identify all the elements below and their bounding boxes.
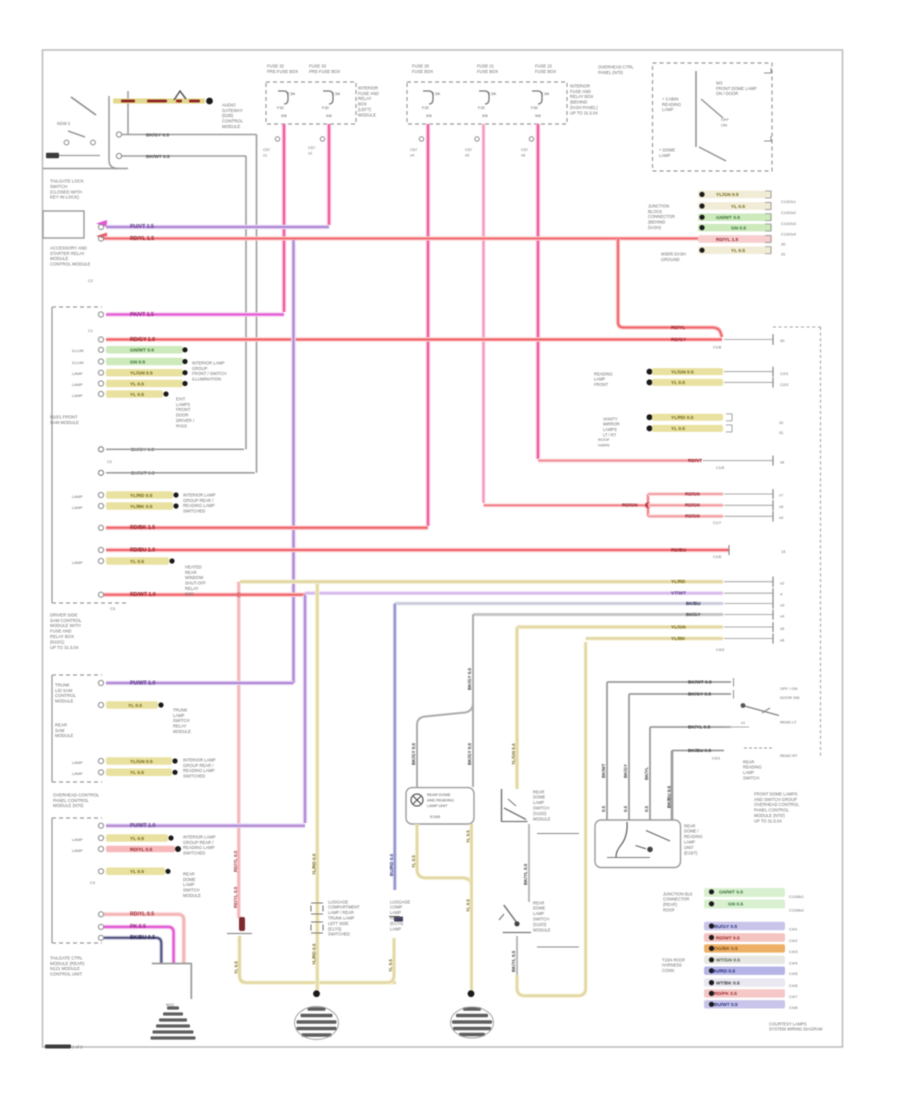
svg-text:FUSE 22: FUSE 22: [535, 63, 553, 68]
svg-text:RD/GN: RD/GN: [685, 491, 700, 496]
wire RD branch x618: [618, 239, 722, 338]
svg-text:HARNESS: HARNESS: [662, 963, 682, 968]
svg-text:CONN: CONN: [662, 968, 674, 973]
fuse block F1 label a: [267, 63, 298, 73]
svg-text:(REAR): (REAR): [663, 902, 678, 907]
wire RD y594: [104, 592, 305, 598]
svg-text:x8: x8: [779, 504, 783, 509]
SAM row YL y383: [72, 380, 188, 388]
svg-text:FUSE BOX: FUSE BOX: [412, 69, 433, 74]
SAM text right y565: [185, 564, 206, 596]
svg-text:LAMP: LAMP: [72, 494, 83, 499]
svg-text:+ DOME: + DOME: [659, 147, 675, 152]
svg-text:C4/4: C4/4: [789, 960, 798, 965]
svg-text:GN 0.5: GN 0.5: [130, 359, 146, 365]
mid rows group1 a: [647, 367, 774, 377]
comp3 yellow y838: [72, 834, 174, 842]
svg-text:DOME: DOME: [533, 906, 546, 911]
svg-text:READ LT: READ LT: [780, 720, 797, 725]
svg-text:PK 0.5: PK 0.5: [130, 924, 146, 930]
fuse block F2 label b: [477, 63, 498, 73]
svg-text:FUSE 33: FUSE 33: [309, 63, 327, 68]
svg-text:FUSE 32: FUSE 32: [267, 63, 285, 68]
pin row 2 (RD/WT 0.5): [704, 933, 798, 943]
svg-text:RD/YL 1.5: RD/YL 1.5: [130, 236, 154, 242]
lamp L1 glyphs: [411, 792, 454, 819]
svg-text:C3: C3: [90, 880, 95, 885]
svg-text:C2/2: C2/2: [780, 382, 789, 387]
right conn pin text 3: [781, 221, 797, 226]
front SAM left edge: [52, 307, 127, 603]
svg-text:RD/YL 0.5: RD/YL 0.5: [130, 847, 153, 853]
OCP small text: [721, 117, 730, 127]
wire PU/VT y227: [106, 224, 329, 230]
wire MG y314: [106, 312, 284, 318]
fuse panel text right: [570, 83, 598, 115]
svg-text:SWITCH: SWITCH: [173, 718, 190, 723]
svg-text:YL 0.5: YL 0.5: [466, 830, 471, 843]
svg-text:PK/VT 1.5: PK/VT 1.5: [130, 312, 154, 318]
svg-text:REAR: REAR: [55, 722, 67, 727]
wire fuse F2c pink drop: [521, 124, 538, 459]
wire dark below SW-A: [523, 824, 529, 902]
svg-text:RELAY: RELAY: [358, 96, 372, 101]
front SAM pin texts: [88, 278, 115, 611]
svg-text:FUSE 20: FUSE 20: [412, 63, 430, 68]
svg-text:LEFT SIDE: LEFT SIDE: [328, 921, 349, 926]
wire YL staircase y638: [586, 634, 785, 653]
svg-text:BK/BU 0.5: BK/BU 0.5: [666, 785, 671, 808]
SAM row YL y394: [72, 390, 169, 398]
svg-text:(BEHIND: (BEHIND: [570, 100, 587, 105]
wire GY y694: [629, 690, 734, 699]
svg-text:PU/WT 1.0: PU/WT 1.0: [130, 823, 155, 829]
svg-text:SWITCHED: SWITCHED: [183, 851, 205, 856]
svg-text:C2: C2: [107, 459, 112, 464]
OCP left text: [662, 96, 681, 112]
svg-text:F32: F32: [531, 105, 539, 110]
OCP inner divider: [695, 71, 697, 147]
wire YL x517 vertical: [511, 627, 517, 789]
svg-text:BK/GY: BK/GY: [686, 612, 701, 617]
svg-text:RD/YL 0.5: RD/YL 0.5: [130, 912, 154, 918]
pin row 5 (BU/RD 0.5): [704, 967, 798, 977]
svg-text:ROOF: ROOF: [598, 437, 610, 442]
wire dark below SW-B: [511, 936, 517, 977]
fuse block F1 dashed box: [266, 82, 356, 124]
svg-text:RD/GN: RD/GN: [685, 514, 700, 519]
comp3 rings: [98, 823, 103, 940]
svg-text:LAMP: LAMP: [72, 760, 83, 765]
wire YL y982 bus: [244, 981, 396, 985]
svg-text:MODULE: MODULE: [533, 816, 551, 821]
svg-text:OVERHEAD CONTROL: OVERHEAD CONTROL: [754, 802, 800, 807]
svg-text:YL/RD 0.5: YL/RD 0.5: [130, 493, 153, 499]
SAM yellow y506: [72, 502, 179, 510]
svg-text:VANITY: VANITY: [603, 416, 618, 421]
green block: [704, 888, 785, 909]
junction split vertical: [645, 494, 651, 516]
svg-text:CONTROL MODULE: CONTROL MODULE: [50, 262, 91, 267]
svg-text:F32: F32: [277, 105, 285, 110]
lamp L1 box: [406, 788, 474, 824]
svg-text:FUSE 21: FUSE 21: [477, 63, 495, 68]
svg-text:INTERIOR: INTERIOR: [570, 83, 590, 88]
svg-text:C57: C57: [263, 147, 270, 152]
svg-text:x4: x4: [410, 153, 415, 158]
SW-A text right: [533, 789, 579, 833]
svg-text:x6: x6: [780, 460, 785, 465]
svg-text:(BEHIND: (BEHIND: [648, 220, 665, 225]
svg-text:PANEL CONTROL: PANEL CONTROL: [754, 808, 790, 813]
svg-text:GN 0.5: GN 0.5: [728, 902, 744, 908]
wire RD y339 long: [106, 337, 722, 343]
svg-text:NSW 2: NSW 2: [57, 121, 71, 126]
lamp L2 right text: [390, 899, 411, 931]
svg-text:REAR: REAR: [743, 759, 754, 764]
svg-text:BK/YL 0.5: BK/YL 0.5: [688, 724, 711, 730]
wire split a y494: [648, 489, 783, 499]
svg-text:(CLOSED WITH: (CLOSED WITH: [50, 189, 82, 194]
svg-text:C57: C57: [410, 147, 417, 152]
svg-text:OVERHEAD CTRL: OVERHEAD CTRL: [598, 64, 634, 69]
svg-text:FRONT: FRONT: [594, 382, 609, 387]
mid group2 left text: [603, 416, 620, 437]
svg-text:YL 0.5: YL 0.5: [130, 392, 144, 398]
SAM row GN y361: [72, 358, 188, 366]
svg-text:SWITCH: SWITCH: [743, 775, 759, 780]
svg-text:YL 0.5: YL 0.5: [411, 855, 416, 868]
svg-text:UP TO 31.5.04: UP TO 31.5.04: [754, 818, 782, 823]
svg-text:REAR: REAR: [684, 823, 695, 828]
corner gray text: [598, 437, 610, 447]
svg-text:7,5A: 7,5A: [432, 91, 441, 96]
svg-text:YL 0.5: YL 0.5: [388, 959, 393, 972]
svg-text:9/8: 9/8: [535, 113, 541, 118]
right conn row4 GN: [698, 224, 772, 232]
switch body line A: [109, 96, 118, 169]
pin row 4 (WT/GN 0.5): [704, 956, 798, 966]
svg-text:BK/YL: BK/YL: [644, 767, 649, 780]
svg-text:BK/YL 0.5: BK/YL 0.5: [511, 950, 516, 972]
svg-text:x3: x3: [780, 602, 785, 607]
svg-text:READING: READING: [743, 765, 762, 770]
svg-text:LAMP: LAMP: [173, 713, 185, 718]
svg-text:7,5A: 7,5A: [488, 91, 497, 96]
svg-text:GROUP REAR /: GROUP REAR /: [183, 763, 214, 768]
svg-text:MODULE: MODULE: [183, 893, 201, 898]
comp3 box edges: [52, 818, 102, 943]
svg-text:HARN: HARN: [598, 443, 609, 448]
switch S1 lever 2: [68, 131, 85, 137]
rear SAM inner text: [55, 682, 77, 703]
svg-text:PU/VT 1.5: PU/VT 1.5: [130, 224, 154, 230]
wire GY y727: [650, 720, 749, 730]
svg-text:RD/YL 1.5: RD/YL 1.5: [716, 237, 739, 243]
splice dot on striped wire: [206, 98, 213, 105]
svg-text:31: 31: [781, 252, 786, 257]
svg-text:RD/GN: RD/GN: [622, 503, 638, 509]
wire GY branch to x417: [411, 703, 473, 787]
switch SW-B: [499, 905, 531, 933]
svg-text:LAMP: LAMP: [183, 882, 195, 887]
OCP bottom diagonal: [699, 147, 726, 161]
svg-text:ILLUM: ILLUM: [72, 360, 83, 365]
wire NAVY y937: [104, 935, 161, 963]
fuse block F1 label b: [309, 63, 340, 73]
svg-text:DOME: DOME: [183, 877, 196, 882]
fuse F2a: [422, 91, 441, 118]
right conn pin text 1: [781, 199, 797, 204]
comp3 yellow y871: [90, 868, 171, 885]
svg-text:LAMP: LAMP: [72, 560, 83, 565]
comp3 below text: [50, 955, 85, 976]
connector stub to frame: [46, 153, 100, 159]
svg-text:GROUP REAR /: GROUP REAR /: [183, 840, 214, 845]
svg-text:x5: x5: [465, 153, 469, 158]
right conn label lower: [661, 251, 686, 261]
svg-text:CONTROL: CONTROL: [55, 693, 77, 698]
switch SW-A: [501, 789, 528, 822]
svg-text:RIGHT: RIGHT: [390, 915, 403, 920]
svg-text:LAMP: LAMP: [743, 770, 754, 775]
wire RD y914: [104, 912, 184, 963]
rear SAM inner text2: [55, 722, 74, 738]
wire YL SW-B loop: [517, 642, 586, 996]
svg-text:MODULE: MODULE: [55, 733, 74, 738]
svg-text:OFF / ON: OFF / ON: [780, 686, 797, 691]
comp2 yellow y772: [72, 769, 178, 777]
svg-text:C57: C57: [308, 145, 315, 150]
svg-text:MODULE: MODULE: [173, 729, 191, 734]
svg-text:UP TO 31.5.04: UP TO 31.5.04: [50, 645, 79, 650]
svg-text:x4: x4: [780, 613, 785, 618]
front SAM big text: [50, 612, 82, 649]
green block right text: [789, 894, 805, 913]
svg-text:x1: x1: [263, 153, 267, 158]
svg-text:ROOF: ROOF: [663, 907, 675, 912]
wire GY y682: [607, 678, 734, 687]
svg-text:FUSE AND: FUSE AND: [570, 89, 591, 94]
svg-text:REAR: REAR: [533, 900, 544, 905]
svg-text:SHUT-OFF: SHUT-OFF: [185, 581, 206, 586]
comp2 yellow y761: [72, 757, 178, 765]
svg-text:YL 0.5: YL 0.5: [731, 204, 745, 210]
svg-text:LAMP: LAMP: [684, 839, 695, 844]
svg-text:CONNECTOR: CONNECTOR: [648, 214, 675, 219]
svg-text:COMP: COMP: [390, 905, 403, 910]
svg-text:FUSE BOX: FUSE BOX: [535, 69, 556, 74]
svg-text:MODULE: MODULE: [533, 927, 551, 932]
svg-text:C13/2x1: C13/2x1: [781, 199, 797, 204]
svg-text:BK/WT: BK/WT: [601, 763, 606, 778]
svg-text:READ RT: READ RT: [780, 753, 798, 758]
svg-text:31: 31: [779, 430, 784, 435]
svg-text:RD/GY 1.0: RD/GY 1.0: [130, 337, 155, 343]
svg-text:BK/BU 0.5: BK/BU 0.5: [130, 935, 155, 941]
wire GY x650 vertical: [644, 727, 650, 820]
rear console box: [595, 820, 681, 868]
ground G3: [451, 1007, 494, 1038]
svg-text:FUSE AND: FUSE AND: [50, 629, 72, 634]
svg-text:TRUNK LAMP: TRUNK LAMP: [328, 915, 355, 920]
front SAM connector rings: [98, 224, 103, 597]
svg-text:SWITCH: SWITCH: [183, 888, 200, 893]
svg-text:AND READING: AND READING: [427, 798, 454, 803]
svg-text:MODULE (REAR): MODULE (REAR): [50, 961, 85, 966]
svg-text:LAMP: LAMP: [533, 800, 544, 805]
arrow into box lower: [96, 233, 107, 240]
wire fuse F1b pink drop: [308, 124, 329, 225]
svg-text:PU/WT 1.0: PU/WT 1.0: [130, 680, 155, 686]
svg-text:DOOR SW: DOOR SW: [780, 695, 800, 700]
comp3 red y849: [72, 846, 181, 853]
pin row 8 (BU/WT 0.5): [704, 1000, 798, 1010]
wire pale red drop x238: [233, 582, 241, 918]
svg-text:C1: C1: [88, 328, 93, 333]
svg-text:SWITCHED: SWITCHED: [183, 509, 205, 514]
svg-text:x9: x9: [779, 515, 783, 520]
svg-text:GROUP: GROUP: [192, 366, 208, 371]
wire gray y472 label: [98, 470, 254, 476]
svg-text:YL/GN 0.5: YL/GN 0.5: [671, 369, 694, 375]
right conn bracket marks: [765, 191, 771, 254]
right conn row6 YL: [698, 246, 772, 254]
wire BU x394 vertical: [389, 604, 395, 891]
wire GY x607 vertical: [601, 682, 607, 820]
svg-text:C1/5: C1/5: [716, 465, 724, 470]
svg-text:C3: C3: [110, 606, 115, 611]
svg-text:x7: x7: [779, 493, 783, 498]
wire YL x317 long: [311, 582, 317, 990]
pin row 1 (BU/GY 0.5): [704, 922, 798, 932]
svg-text:LAMP: LAMP: [72, 393, 83, 398]
svg-text:YL/RD: YL/RD: [671, 579, 686, 585]
svg-text:15: 15: [781, 549, 786, 554]
right big text: [754, 791, 800, 823]
svg-text:SWITCH: SWITCH: [533, 916, 549, 921]
fuse block F2 label c: [535, 63, 556, 73]
svg-text:FRONT DOME LAMPS: FRONT DOME LAMPS: [754, 791, 798, 796]
SAM rows text right: [192, 360, 226, 381]
switch S1 contact a: [64, 140, 69, 145]
wire BK/WT lower: [116, 153, 246, 159]
svg-text:BK/GY 0.5: BK/GY 0.5: [146, 132, 169, 138]
wire RD y505 feed: [484, 503, 649, 509]
wire PU vertical 2: [303, 595, 308, 823]
svg-text:ON: ON: [721, 123, 727, 128]
svg-text:9/8: 9/8: [281, 113, 287, 118]
svg-text:FUSE BOX: FUSE BOX: [477, 69, 498, 74]
svg-text:C13/2x3: C13/2x3: [781, 221, 797, 226]
right conn label: [648, 203, 675, 230]
wire LV y593 to module: [305, 588, 783, 598]
svg-text:SAM MODULE: SAM MODULE: [50, 420, 79, 425]
svg-text:BK/BU: BK/BU: [686, 601, 701, 606]
right conn row3 GN: [698, 213, 772, 221]
wire GY x629 vertical: [623, 694, 629, 820]
svg-text:DRIVER /: DRIVER /: [176, 418, 195, 423]
svg-text:GATEWAY: GATEWAY: [222, 108, 243, 113]
svg-text:7,5A: 7,5A: [332, 91, 341, 96]
svg-text:YL/GN 0.5: YL/GN 0.5: [130, 371, 153, 377]
svg-text:LAMP: LAMP: [72, 837, 83, 842]
svg-text:REAR: REAR: [185, 570, 197, 575]
svg-text:ILLUM: ILLUM: [72, 348, 83, 353]
svg-text:YL/GN 0.5: YL/GN 0.5: [511, 743, 516, 765]
svg-text:MODULE: MODULE: [55, 699, 74, 704]
svg-text:CONNECTOR: CONNECTOR: [663, 897, 689, 902]
comp2 text right: [183, 757, 216, 778]
twisted-pair marker: [174, 91, 186, 100]
svg-text:LAMP: LAMP: [533, 911, 544, 916]
svg-text:RELAY: RELAY: [173, 724, 187, 729]
svg-text:READING: READING: [684, 834, 703, 839]
comp2 rings: [98, 680, 103, 775]
mid group1 left text: [594, 371, 613, 387]
svg-text:LAMPS: LAMPS: [603, 427, 617, 432]
wire fuse F2a pink drop: [410, 124, 428, 526]
svg-text:RD/WT 0.5: RD/WT 0.5: [716, 935, 740, 941]
svg-text:BK/WT 0.5: BK/WT 0.5: [688, 679, 712, 685]
svg-text:YL 0.5: YL 0.5: [234, 961, 239, 974]
svg-text:C4/5: C4/5: [789, 971, 798, 976]
svg-text:JUNCTION BLK: JUNCTION BLK: [663, 891, 693, 896]
wire BK/GY upper: [116, 132, 256, 138]
svg-text:BK/GY: BK/GY: [623, 764, 628, 778]
wire PU y825: [106, 823, 305, 829]
svg-text:MODULE (N70): MODULE (N70): [53, 803, 84, 808]
overhead control module box: [653, 63, 773, 171]
right conn pin text 2: [781, 210, 797, 215]
wire striped yellow feed: [113, 98, 205, 103]
svg-text:C4/6: C4/6: [789, 983, 798, 988]
svg-text:31: 31: [779, 420, 784, 425]
mid rows group1 b: [647, 377, 774, 387]
svg-text:REAR: REAR: [533, 789, 544, 794]
svg-text:x1: x1: [741, 720, 745, 725]
svg-text:RD/BK 1.5: RD/BK 1.5: [130, 525, 155, 531]
right conn row5 RD band: [698, 235, 772, 243]
svg-text:RD/PK 0.5: RD/PK 0.5: [714, 991, 737, 997]
SAM row GN y349: [72, 346, 188, 354]
svg-text:F32: F32: [322, 105, 330, 110]
svg-text:GN/WT 0.5: GN/WT 0.5: [716, 215, 740, 221]
rear SAM box edges: [52, 675, 102, 782]
svg-text:ILLUMINATION: ILLUMINATION: [192, 377, 221, 382]
svg-text:YL/BK: YL/BK: [671, 636, 686, 642]
svg-text:30: 30: [780, 338, 785, 343]
svg-text:C4/3: C4/3: [789, 949, 798, 954]
fuse block F2 dashed box: [407, 82, 567, 124]
svg-text:LAMP: LAMP: [72, 382, 83, 387]
svg-text:READING: READING: [662, 102, 681, 107]
svg-text:(E17/4): (E17/4): [390, 921, 404, 926]
svg-text:OFF: OFF: [721, 117, 730, 122]
svg-text:ACCESSORY AND: ACCESSORY AND: [50, 245, 87, 250]
lamp L2 left text: [328, 899, 360, 936]
svg-text:BU/RD 0.5: BU/RD 0.5: [712, 969, 736, 975]
svg-text:C4/2: C4/2: [789, 938, 798, 943]
svg-text:SWITCH: SWITCH: [50, 184, 67, 189]
svg-text:READING LAMP: READING LAMP: [183, 845, 215, 850]
roof module dashed box: [773, 327, 821, 758]
wire split c y516: [648, 511, 783, 525]
switch S1 label: [57, 121, 71, 126]
svg-text:BU/GY 0.5: BU/GY 0.5: [714, 924, 737, 930]
svg-text:YL 0.5: YL 0.5: [671, 426, 685, 432]
bottom right corner text: [769, 1021, 823, 1031]
